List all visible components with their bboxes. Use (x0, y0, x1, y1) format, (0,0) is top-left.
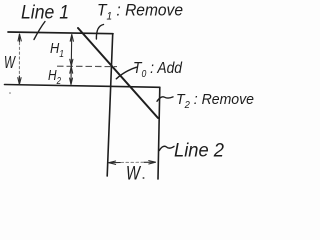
svg-text:H2: H2 (48, 67, 61, 87)
svg-text:T0 : Add: T0 : Add (133, 60, 183, 80)
svg-text:T2 : Remove: T2 : Remove (176, 91, 254, 111)
svg-text:Line 1: Line 1 (21, 3, 69, 24)
svg-text:Line 2: Line 2 (174, 141, 224, 162)
svg-text:H1: H1 (50, 40, 64, 60)
svg-text:W: W (126, 164, 142, 185)
svg-text:W: W (4, 52, 16, 72)
svg-text:T1 : Remove: T1 : Remove (97, 1, 183, 23)
